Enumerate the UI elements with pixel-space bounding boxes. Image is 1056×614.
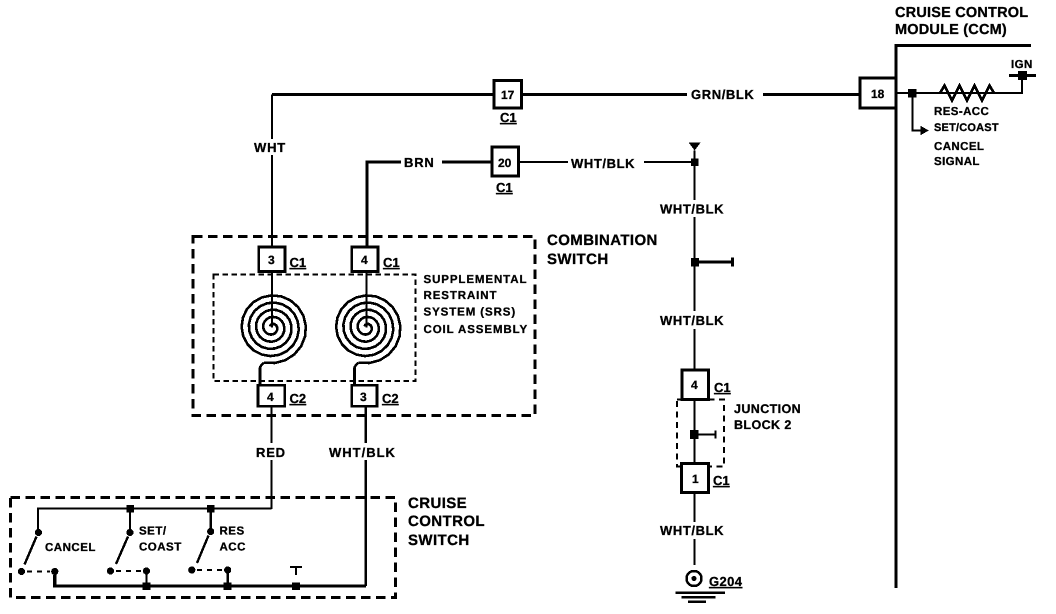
- svg-text:GRN/BLK: GRN/BLK: [691, 87, 754, 102]
- wire junction block to ground: [693, 493, 695, 566]
- label WHT/BLK (upper run): [568, 154, 644, 170]
- label WHT/BLK (vertical 2): [658, 311, 730, 329]
- svg-text:COAST: COAST: [139, 542, 182, 554]
- wire WHT/BLK middle vertical: [693, 151, 695, 370]
- connector 4 C2 box (bottom left): [258, 385, 285, 406]
- svg-text:C1: C1: [500, 110, 517, 125]
- wire WHT/BLK from connector 20 to junction: [518, 161, 695, 163]
- junction block internal node: [690, 430, 699, 439]
- svg-text:SIGNAL: SIGNAL: [934, 156, 980, 168]
- label WHT: [252, 139, 292, 155]
- svg-text:4: 4: [361, 253, 368, 267]
- cruise switch bottom bus wire: [55, 575, 366, 586]
- switch SET/COAST: [107, 505, 151, 590]
- IGN terminal: [1009, 74, 1036, 77]
- connector 4 C1 box (top right): [352, 247, 378, 272]
- svg-text:WHT/BLK: WHT/BLK: [329, 445, 396, 460]
- coil R tail: [355, 363, 359, 386]
- svg-text:SYSTEM (SRS): SYSTEM (SRS): [424, 307, 517, 319]
- node T-stub tap on WHT/BLK vertical: [695, 258, 733, 267]
- coil L tail: [260, 363, 264, 386]
- svg-text:C1: C1: [383, 255, 400, 270]
- ground G204 symbol: [687, 571, 702, 586]
- node junction dot at WHT/BLK tee: [691, 159, 699, 167]
- svg-text:WHT/BLK: WHT/BLK: [571, 156, 635, 171]
- node arrow at top of WHT/BLK vertical: [689, 143, 701, 151]
- label WHT/BLK (above ground): [658, 522, 730, 539]
- svg-text:CANCEL: CANCEL: [934, 141, 984, 153]
- svg-text:C1: C1: [714, 380, 731, 395]
- svg-text:4: 4: [267, 390, 274, 404]
- switch RES/ACC: [188, 505, 232, 590]
- wire RED drop to cruise switch: [270, 407, 272, 510]
- wire into left coil center: [271, 272, 273, 328]
- svg-text:BLOCK 2: BLOCK 2: [734, 418, 792, 432]
- wire from pin 18 to resistor and IGN: [896, 79, 1022, 93]
- SRS coil assembly inner dashed box: [214, 275, 416, 382]
- svg-text:MODULE (CCM): MODULE (CCM): [895, 22, 1007, 38]
- svg-text:JUNCTION: JUNCTION: [734, 402, 801, 416]
- node unused terminal T on bottom bus: [290, 567, 302, 590]
- coil R (SRS spiral right): [336, 295, 400, 363]
- svg-text:CONTROL: CONTROL: [408, 513, 485, 530]
- svg-text:COMBINATION: COMBINATION: [547, 232, 658, 249]
- svg-text:WHT/BLK: WHT/BLK: [660, 313, 724, 328]
- svg-text:ACC: ACC: [220, 542, 246, 554]
- svg-text:CANCEL: CANCEL: [45, 542, 96, 554]
- resistor (cruise signal pull-up): [940, 86, 994, 101]
- connector 1 C1 box (junction block bottom): [682, 464, 709, 493]
- label WHT/BLK (vertical 1): [658, 200, 731, 217]
- svg-text:4: 4: [691, 378, 698, 392]
- connector 3 C2 box (bottom right): [352, 385, 377, 406]
- svg-text:WHT/BLK: WHT/BLK: [660, 523, 724, 538]
- node junction dot after pin 18: [908, 89, 917, 98]
- svg-text:COIL ASSEMBLY: COIL ASSEMBLY: [424, 324, 529, 336]
- wire GRN/BLK main horizontal (CCM pin 18 to connector 17 to WHT drop): [272, 93, 860, 96]
- svg-text:18: 18: [871, 87, 885, 101]
- svg-text:SUPPLEMENTAL: SUPPLEMENTAL: [424, 274, 528, 286]
- label BRN: [401, 154, 442, 170]
- svg-text:RES-ACC: RES-ACC: [934, 106, 989, 118]
- svg-text:1: 1: [692, 472, 699, 486]
- wire RES-ACC signal arrow: [913, 97, 922, 131]
- svg-text:C1: C1: [713, 473, 730, 488]
- svg-text:WHT: WHT: [254, 140, 286, 155]
- svg-text:RED: RED: [256, 445, 286, 460]
- svg-text:SWITCH: SWITCH: [408, 532, 470, 549]
- connector 17: [494, 81, 522, 109]
- svg-text:CRUISE: CRUISE: [408, 495, 467, 512]
- wire WHT/BLK drop to cruise switch bus: [365, 407, 367, 587]
- svg-text:C1: C1: [290, 255, 307, 270]
- svg-text:C2: C2: [290, 391, 307, 406]
- wire WHT vertical drop: [271, 95, 273, 248]
- junction block 2 dashed box: [677, 400, 724, 467]
- svg-text:RES: RES: [220, 526, 245, 538]
- svg-text:3: 3: [268, 253, 275, 267]
- svg-text:IGN: IGN: [1011, 59, 1033, 71]
- svg-text:BRN: BRN: [404, 155, 435, 170]
- switch CANCEL: [18, 529, 59, 575]
- connector 20: [492, 147, 519, 176]
- svg-text:C2: C2: [382, 391, 399, 406]
- cruise control switch dashed box: [11, 498, 396, 598]
- svg-text:SET/: SET/: [139, 526, 167, 538]
- label WHT/BLK (to switch): [326, 443, 400, 460]
- connector 3 C1 box: [259, 247, 285, 272]
- svg-text:C1: C1: [496, 180, 513, 195]
- svg-text:WHT/BLK: WHT/BLK: [660, 202, 724, 217]
- connector 4 C1 box (junction block top): [682, 370, 708, 400]
- CCM boundary line: [896, 46, 1031, 589]
- svg-text:RESTRAINT: RESTRAINT: [424, 290, 498, 302]
- connector 18: [860, 78, 896, 108]
- cruise switch top bus wire: [38, 509, 272, 530]
- coil L (SRS spiral left): [242, 295, 306, 363]
- svg-text:3: 3: [360, 390, 367, 404]
- svg-text:SWITCH: SWITCH: [547, 251, 609, 268]
- svg-text:CRUISE CONTROL: CRUISE CONTROL: [895, 5, 1028, 21]
- svg-text:SET/COAST: SET/COAST: [934, 122, 999, 134]
- wire into right coil center: [365, 272, 367, 328]
- label GRN/BLK: [687, 85, 763, 102]
- junction block internal wire: [695, 400, 716, 464]
- label RED: [252, 443, 290, 460]
- wire BRN (bend to connector 20): [367, 162, 492, 248]
- svg-text:G204: G204: [709, 574, 743, 589]
- svg-text:20: 20: [498, 156, 512, 170]
- svg-text:17: 17: [501, 88, 515, 102]
- combination switch dashed box: [193, 237, 535, 416]
